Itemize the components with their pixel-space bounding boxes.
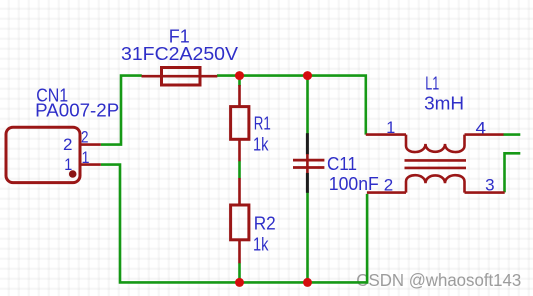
wire: L1 pin 4 output [503,133,520,136]
svg-text:3mH: 3mH [424,93,464,113]
svg-text:1: 1 [82,148,90,167]
svg-text:R1: R1 [254,113,271,133]
wire: top rail stub to C11 [306,76,309,134]
L1 pin 2 lead [367,191,406,194]
connector CN1 body [6,127,80,182]
svg-text:C11: C11 [327,154,357,174]
wire: fuse F1 output along top rail to L1 pin 1 [217,76,366,135]
svg-text:1: 1 [386,118,395,137]
wire: C11 bottom to bottom rail [306,192,309,282]
svg-text:R2: R2 [254,213,276,233]
svg-text:4: 4 [476,118,487,137]
inductor L1 (common-mode choke) [366,135,505,193]
resistor R1 [231,85,249,161]
svg-text:2: 2 [384,176,393,195]
L1 bottom winding [406,175,465,192]
wire: R2 bottom to bottom rail [238,263,241,283]
capacitor C11 [293,133,324,193]
resistor R2 [231,178,249,263]
L1 core lines [405,160,467,168]
wire: top rail stub to R1 [238,76,241,87]
L1 top winding [406,135,465,152]
wire: CN1 pin 1 down to bottom rail and up to L1 pin 2 [101,165,367,283]
junction: bottom rail at C11 [303,278,312,287]
wire: L1 pin 3 output up and right [505,153,521,192]
svg-text:2: 2 [81,127,89,146]
junction: top rail at C11 [303,71,312,80]
svg-text:2: 2 [63,135,72,154]
wire: between R1 and R2 [238,161,241,179]
svg-text:31FC2A250V: 31FC2A250V [121,44,238,64]
svg-text:1k: 1k [253,234,269,254]
L1 pin 4 lead [465,133,504,136]
L1 pin 1 lead [366,133,406,136]
junction: bottom rail at R2 [235,278,244,287]
svg-text:3: 3 [485,176,494,195]
CN1 pin 2 stub [80,143,101,146]
L1 pin 3 lead [465,191,505,194]
junction: top rail at R1 [235,71,244,80]
svg-text:1: 1 [64,155,72,174]
fuse F1 [142,68,218,86]
svg-text:CSDN @whaosoft143: CSDN @whaosoft143 [356,270,521,290]
svg-text:100nF: 100nF [329,174,379,194]
svg-text:1k: 1k [253,135,269,155]
CN1 pin 1 stub [80,163,101,166]
wire: CN1 pin 2 up to fuse F1 input [101,76,142,145]
svg-text:PA007-2P: PA007-2P [35,100,119,120]
svg-text:L1: L1 [425,74,439,94]
